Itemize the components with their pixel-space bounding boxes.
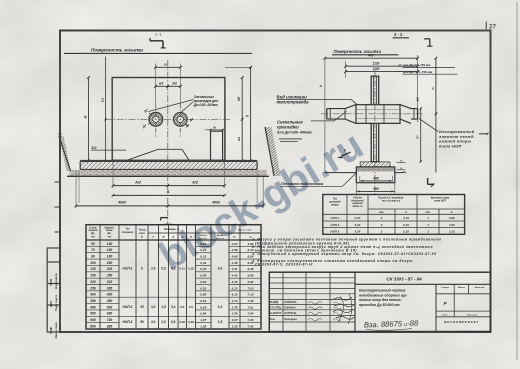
support panel outline (plan) [112, 78, 225, 161]
left grid of title block [282, 272, 284, 331]
stamp handwriting scribbles [332, 297, 354, 319]
dimension 495 [360, 180, 393, 182]
page number 27 [485, 22, 487, 31]
foundation top hatched slab [360, 162, 390, 167]
bulge inner joints [365, 105, 367, 124]
pipe insulated bulge through panel [356, 105, 400, 124]
vertical centerline / symmetry axis [167, 60, 169, 168]
sheet border frame [60, 31, 491, 333]
table data rows [86, 245, 119, 247]
dimension 1130 [346, 65, 418, 67]
dimension 1150 [346, 71, 418, 73]
materials summary table [323, 195, 465, 235]
horizontal centerline through pipes [105, 118, 231, 120]
left height dimension line [88, 78, 90, 161]
backfill surface line (right) [332, 54, 399, 56]
paper edge shadow [516, 2, 518, 360]
right height dimension h1 [435, 58, 437, 172]
trench right slope with hatching [265, 127, 274, 176]
excavation pit outline (inverted V) [127, 149, 158, 160]
title block main divider [354, 272, 356, 331]
foundation block [356, 167, 395, 183]
left pipe (cross-section) with insulation ring [149, 112, 163, 126]
document number СК 3303-87-64 [355, 283, 491, 285]
section cut mark top right [424, 38, 430, 40]
axis continuation to table with cut flag [167, 174, 169, 225]
dimension 400 [325, 57, 418, 59]
trench floor line [67, 175, 269, 177]
main parameters table [86, 225, 261, 329]
overall trench dimension 4600+4600 [76, 205, 263, 207]
dimension A [113, 194, 225, 196]
pipe right transition cone [400, 105, 411, 109]
diagonal watermark block-gbi.ru [152, 123, 371, 279]
dimension a/2 a/2 [156, 85, 181, 87]
right pipe (cross-section) with insulation ring [173, 112, 187, 126]
niche box at right bottom of panel [211, 131, 223, 161]
ground line left of foundation [325, 172, 356, 174]
rubble bedding speckle strip [357, 168, 394, 172]
dimension A/2 A/2 [113, 185, 225, 187]
left margin stamp strip [47, 248, 60, 332]
ground surface line right of trench [279, 138, 302, 140]
tiny ledge dims right of foundation [397, 162, 406, 164]
section cut mark bottom right [427, 178, 429, 184]
dimension 695 [356, 190, 395, 192]
extension lines [324, 58, 326, 172]
inner left dimension line B/2 [105, 57, 107, 161]
backfill surface line (left) [64, 52, 252, 54]
pipe bulge blank mask [356, 105, 400, 124]
dimension line delta/2 [420, 109, 422, 162]
bedding slab hatched band [80, 160, 257, 162]
pipe thin right section [411, 108, 418, 110]
pipe thin left section [327, 108, 345, 110]
fold tick marks on left frame [55, 181, 61, 183]
dimension a (between pipe axes) [156, 66, 181, 68]
right dimension line full height [250, 67, 252, 161]
ground line right of foundation [395, 172, 404, 174]
pipe centerline (section 2-2) [321, 113, 424, 115]
pipe left transition cone [345, 105, 356, 109]
support panel (section) vertical slab [371, 76, 379, 161]
title block outer box [269, 272, 490, 331]
cut mark near foundation [341, 152, 351, 156]
right dimension line h6 [241, 78, 243, 161]
stage-mass-scale grid [435, 284, 437, 331]
handwritten archive number [366, 329, 412, 331]
panel centerline [374, 70, 376, 196]
trench left slope with hatching [59, 136, 71, 171]
ground speckle band under slab [70, 170, 268, 176]
